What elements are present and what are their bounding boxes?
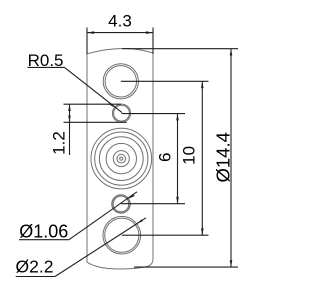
dim 14.4 top extension line — [122, 48, 238, 50]
hole C4 small circle inner — [113, 196, 129, 212]
hole C1 top circle outer — [103, 64, 138, 99]
dim 6 top extension line from C2 center — [122, 113, 186, 115]
dim 1.2 bottom tangent extension line — [64, 121, 127, 123]
concentric seat ring 1 — [91, 128, 152, 189]
leader D2.2 underline — [16, 276, 55, 278]
body outline — [87, 48, 153, 269]
leader D1.06 diagonal — [69, 192, 137, 240]
leader R0.5 diagonal — [65, 67, 123, 112]
arrow 1.2 up — [68, 104, 71, 111]
svg-text:Ø1.06: Ø1.06 — [19, 221, 68, 241]
dim 4.3 left extension line — [86, 28, 88, 55]
concentric seat ring 3 — [99, 137, 143, 181]
hole C2 small circle outer — [112, 104, 130, 122]
hole C5 bottom circle outer — [103, 216, 141, 254]
svg-text:6: 6 — [156, 153, 175, 162]
dim 10 bottom extension line from C5 center — [122, 234, 209, 236]
arrow 14.4 down — [230, 260, 233, 267]
dim 14.4 dimension line — [230, 49, 232, 267]
dim 14.4 bottom extension line — [134, 266, 238, 268]
dim 10 top extension line from C1 center — [121, 80, 209, 82]
arrow 6 up — [176, 114, 179, 121]
hole C4 small circle outer — [112, 195, 130, 213]
dim 1.2 dimension line — [69, 104, 71, 155]
svg-text:1.2: 1.2 — [50, 131, 69, 155]
dim 6 dimension line — [177, 114, 179, 204]
dim 4.3 right extension line — [152, 28, 154, 55]
concentric seat ring 6 — [117, 154, 126, 163]
svg-text:4.3: 4.3 — [108, 11, 132, 30]
arrow 4.3 left — [87, 31, 94, 34]
svg-text:Ø14.4: Ø14.4 — [213, 132, 234, 182]
concentric seat center dot — [120, 157, 123, 160]
arrow 14.4 up — [230, 49, 233, 56]
arrow D1.06 leader — [129, 194, 135, 199]
arrow 10 down — [201, 228, 204, 235]
dim 6 bottom extension line from C4 center — [121, 203, 185, 205]
arrow 10 up — [201, 81, 204, 88]
leader D2.2 diagonal — [55, 218, 146, 277]
arrow 1.2 down — [68, 116, 71, 123]
arrow 6 down — [176, 197, 179, 204]
svg-text:R0.5: R0.5 — [28, 51, 64, 70]
dim 4.3 dimension line — [87, 32, 153, 34]
arrow R0.5 leader — [109, 103, 115, 108]
hole C2 small circle inner — [114, 105, 130, 121]
arrow 4.3 right — [146, 31, 153, 34]
concentric seat ring 4 — [106, 143, 136, 173]
dim 1.2 top tangent extension line — [64, 103, 122, 105]
svg-text:Ø2.2: Ø2.2 — [16, 257, 54, 277]
leader R0.5 underline — [28, 66, 65, 68]
dim 10 dimension line — [201, 81, 203, 235]
concentric seat ring 5 — [113, 151, 129, 167]
arrow D2.2 leader — [137, 219, 143, 223]
leader D1.06 underline — [19, 239, 69, 241]
hole C5 bottom circle inner — [105, 218, 139, 252]
svg-text:10: 10 — [179, 146, 198, 165]
hole C1 top circle inner — [105, 66, 136, 97]
concentric seat ring 2 — [95, 132, 148, 185]
